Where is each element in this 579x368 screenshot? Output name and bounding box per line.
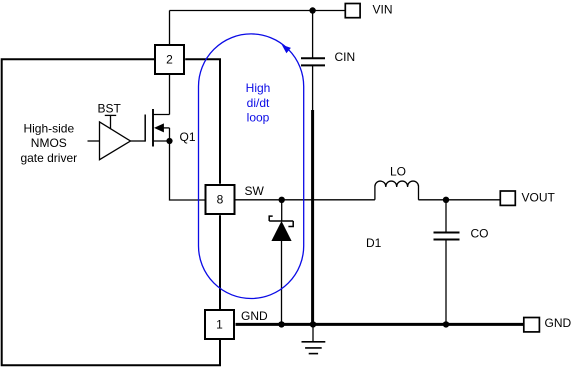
wire SW from pin8 to inductor	[236, 199, 375, 201]
terminal GND	[524, 318, 540, 332]
wire blue high di/dt loop	[199, 34, 304, 299]
svg-text:VIN: VIN	[373, 3, 393, 17]
svg-text:gate driver: gate driver	[20, 151, 77, 165]
capacitor CIN	[301, 58, 325, 65]
junction dot VIN/CIN	[309, 7, 315, 13]
label High-side NMOS gate driver	[20, 121, 77, 165]
wire CIN bottom thin	[312, 65, 314, 111]
wire inductor to VOUT	[418, 199, 500, 201]
svg-text:GND: GND	[545, 316, 572, 330]
svg-text:NMOS: NMOS	[31, 136, 67, 150]
wire D1 anode to ground bus	[281, 241, 283, 324]
svg-text:CO: CO	[471, 227, 489, 241]
svg-text:SW: SW	[245, 184, 265, 198]
wire CO top	[445, 200, 447, 232]
transistor Q1	[145, 109, 169, 147]
terminal VOUT	[500, 191, 515, 205]
capacitor CO	[434, 233, 460, 240]
pin 2	[155, 45, 184, 74]
wire CIN bold to ground bus	[311, 110, 314, 324]
wire CIN top	[312, 11, 314, 58]
svg-text:CIN: CIN	[335, 50, 356, 64]
wire CO bottom	[445, 240, 447, 325]
wire driver input stub	[88, 140, 100, 142]
svg-text:BST: BST	[98, 101, 122, 115]
junction dot bus/ground	[310, 321, 316, 327]
junction dot LO/CO	[443, 197, 449, 203]
svg-text:LO: LO	[390, 165, 406, 179]
pin 1	[205, 310, 234, 339]
ground	[302, 324, 326, 353]
wire Q1 source to pin8	[170, 141, 205, 200]
IC U1 outline	[2, 59, 220, 365]
svg-text:1: 1	[216, 318, 223, 332]
label High di/dt loop	[246, 81, 271, 125]
svg-text:Q1: Q1	[180, 130, 196, 144]
svg-text:di/dt: di/dt	[247, 96, 270, 110]
junction dot SW/D1	[279, 197, 285, 203]
svg-text:High-side: High-side	[23, 121, 74, 135]
wire top rail to VIN	[170, 10, 346, 12]
terminal VIN	[345, 4, 360, 18]
pin 8	[206, 185, 235, 214]
svg-text:8: 8	[217, 193, 224, 207]
op-amp driver triangle	[100, 122, 131, 160]
svg-text:GND: GND	[241, 309, 268, 323]
svg-text:D1: D1	[366, 236, 382, 250]
wire Q1 drain to pin2	[169, 75, 171, 115]
svg-text:2: 2	[166, 53, 173, 67]
svg-text:High: High	[246, 81, 271, 95]
node BST stub	[105, 115, 116, 129]
wire pin2 to top rail	[169, 11, 171, 45]
wire driver output to gate	[131, 140, 146, 142]
inductor LO	[375, 181, 419, 200]
svg-text:VOUT: VOUT	[522, 190, 556, 204]
wire ground bus	[236, 323, 524, 326]
junction dot Q1 source	[166, 138, 172, 144]
junction dot CO/bus	[443, 321, 449, 327]
svg-text:loop: loop	[247, 111, 270, 125]
diode D1 schottky	[269, 200, 293, 227]
blue loop arrowhead	[282, 45, 291, 54]
junction dot D1/bus	[278, 321, 284, 327]
